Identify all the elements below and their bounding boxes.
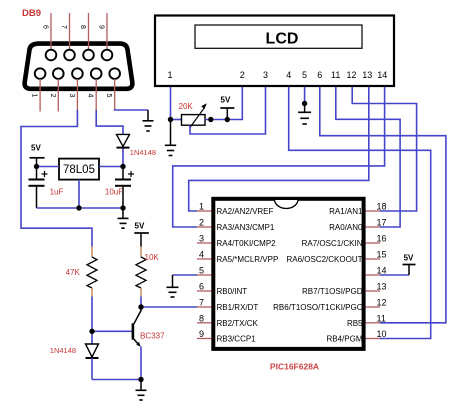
PIC pin 14 VDD (366, 266, 387, 276)
PIC pin 7 RB1 (197, 298, 258, 313)
wire base node to transistor base (92, 330, 132, 332)
wire PIC pin14 VDD to 5V (380, 274, 409, 276)
PIC pin 12 RB6 (273, 298, 386, 313)
connector DB9 label (22, 8, 41, 19)
LCD pin numbers (167, 70, 387, 80)
svg-text:13: 13 (362, 70, 372, 80)
5V supply at PIC pin14 (403, 254, 416, 276)
svg-text:RA1/AN1: RA1/AN1 (329, 207, 363, 216)
DB9 pin 2 (49, 68, 64, 111)
svg-text:10: 10 (377, 329, 387, 339)
svg-text:12: 12 (377, 298, 387, 308)
wire LCD pin5 to ground (304, 87, 306, 104)
potentiometer 20K (179, 102, 207, 128)
svg-text:10K: 10K (145, 253, 160, 262)
DB9 pin 1 (31, 68, 46, 111)
svg-text:3: 3 (263, 70, 268, 80)
wire emitter down (140, 347, 142, 380)
svg-text:RB3/CCP1: RB3/CCP1 (217, 335, 257, 344)
svg-text:RA6/OSC2/CKOOUT: RA6/OSC2/CKOOUT (286, 255, 362, 264)
svg-text:DB9: DB9 (22, 8, 41, 19)
wire LCD pin13 to PIC pin1 RA2 (189, 87, 369, 211)
svg-text:5: 5 (105, 94, 112, 98)
svg-text:8: 8 (199, 313, 204, 323)
svg-text:9: 9 (98, 25, 105, 29)
diode D2 1N4148 (50, 331, 99, 379)
DB9 pin 4 (87, 68, 102, 110)
transistor Q1 BC337 (133, 307, 165, 347)
svg-text:5V: 5V (31, 144, 41, 153)
svg-text:LCD: LCD (266, 31, 299, 48)
svg-text:11: 11 (331, 70, 340, 80)
svg-text:5: 5 (199, 266, 204, 276)
PIC pin 8 RB2 (197, 313, 259, 328)
svg-text:7: 7 (199, 298, 204, 308)
PIC pin 17 RA0 (329, 218, 386, 233)
svg-text:2: 2 (240, 70, 245, 80)
svg-text:3: 3 (199, 234, 204, 244)
wire DB9 pin5 to ground (115, 109, 148, 110)
svg-text:13: 13 (377, 282, 387, 292)
svg-text:5V: 5V (221, 96, 231, 105)
PIC pin 10 RB4 (326, 329, 386, 344)
svg-text:15: 15 (377, 250, 387, 260)
svg-text:78L05: 78L05 (63, 164, 95, 176)
svg-text:RB4/PGM: RB4/PGM (326, 335, 362, 344)
svg-text:1N4148: 1N4148 (130, 148, 156, 157)
svg-text:1uF: 1uF (50, 188, 64, 197)
svg-text:47K: 47K (66, 268, 81, 277)
svg-text:5V: 5V (135, 222, 145, 231)
capacitor C2 10uF (105, 167, 134, 209)
svg-text:9: 9 (199, 329, 204, 339)
svg-text:4: 4 (87, 94, 94, 98)
ground at 10uF (118, 208, 129, 228)
wire DB9 pin4 to diode D1 anode (96, 110, 123, 135)
wire LCD pin12 to PIC pin18 RA1 (352, 87, 416, 211)
wire LCD pin11 to PIC pin17 RA0 (336, 87, 400, 227)
junction node at 10uF ground (120, 205, 125, 210)
PIC pin 13 RB7 (302, 282, 386, 297)
5V supply at 10K (134, 222, 149, 247)
junction node at transistor collector (138, 304, 143, 309)
junction node at pot right (208, 117, 213, 122)
PIC pin 9 RB3 (197, 329, 256, 344)
junction node at transistor emitter (138, 377, 143, 382)
svg-text:12: 12 (346, 70, 356, 80)
svg-text:11: 11 (377, 313, 386, 323)
svg-text:RA3/AN3/CMP1: RA3/AN3/CMP1 (217, 223, 275, 232)
svg-text:7: 7 (60, 25, 67, 29)
regulator 78L05 (59, 159, 99, 180)
svg-text:RA2/AN2/VREF: RA2/AN2/VREF (217, 207, 274, 216)
5V supply at 78L05 input (30, 144, 45, 167)
DB9 pin 8 (79, 13, 94, 60)
connector DB9 body (25, 44, 133, 89)
svg-text:2: 2 (199, 218, 204, 228)
DB9 pin 3 (68, 68, 83, 110)
svg-text:RB2/TX/CK: RB2/TX/CK (217, 319, 259, 328)
wire diode cathode to emitter node (92, 379, 141, 381)
diode D1 1N4148 (117, 134, 157, 166)
ground at emitter (136, 380, 147, 401)
junction node at 5V pot tap (225, 117, 230, 122)
svg-text:20K: 20K (179, 102, 194, 111)
svg-text:RB0/INT: RB0/INT (217, 287, 248, 296)
svg-text:10uF: 10uF (105, 188, 123, 197)
svg-text:14: 14 (377, 266, 387, 276)
PIC pin 18 RA1 (329, 202, 386, 217)
wire pot right to LCD pin2 (205, 87, 242, 120)
wire LCD pin1 down to pot node (170, 87, 172, 120)
PIC pin 16 RA7 (302, 234, 387, 249)
svg-text:RB7/T1OSI/PGD: RB7/T1OSI/PGD (302, 287, 363, 296)
svg-text:5: 5 (302, 70, 307, 80)
DB9 pin 9 (98, 13, 113, 60)
capacitor C1 1uF (29, 167, 64, 209)
IC U1 PIC16F628A body (213, 199, 363, 372)
junction node at 78L05 output (120, 164, 125, 169)
wire 78L05 output to diode node (99, 166, 123, 168)
5V supply at pot (220, 96, 234, 120)
PIC pin 4 RA5 (197, 250, 278, 265)
svg-text:6: 6 (199, 282, 204, 292)
svg-text:6: 6 (42, 25, 49, 29)
wire DB9 pin3 to 47K top (left rail) (21, 110, 92, 247)
svg-text:14: 14 (377, 70, 387, 80)
wire pot left (171, 119, 182, 121)
wire pot wiper to LCD pin3 (190, 87, 266, 134)
wire LCD pin4 to PIC pin10 RB4 (289, 87, 431, 339)
svg-text:1N4148: 1N4148 (50, 346, 76, 355)
junction node at 78L05 ground (76, 205, 81, 210)
resistor 10K (136, 247, 159, 297)
svg-text:RB5: RB5 (347, 319, 363, 328)
svg-text:2: 2 (49, 94, 56, 98)
svg-text:RA7/OSC1/CKIN: RA7/OSC1/CKIN (302, 239, 363, 248)
DB9 pin 5 (105, 68, 120, 109)
svg-text:18: 18 (377, 202, 387, 212)
PIC pin 3 RA4 (197, 234, 276, 249)
svg-text:17: 17 (377, 218, 387, 228)
svg-text:PIC16F628A: PIC16F628A (270, 362, 319, 372)
svg-text:1: 1 (199, 202, 204, 212)
svg-text:1: 1 (31, 94, 38, 98)
wire 10K bottom to collector node (140, 297, 142, 308)
wire PIC pin5 VSS to ground (173, 274, 198, 276)
svg-text:RA4/T0KI/CMP2: RA4/T0KI/CMP2 (217, 239, 277, 248)
wire LCD pin6 to PIC pin11 RB5 (320, 87, 446, 323)
svg-text:5V: 5V (404, 254, 414, 263)
wire LCD pin14 to PIC pin2 RA3 (173, 87, 385, 227)
svg-text:3: 3 (68, 94, 75, 98)
junction node at pot left (168, 117, 173, 122)
ground below pot left node (165, 120, 176, 156)
ground at PIC pin5 (167, 275, 179, 297)
DB9 pin 7 (60, 13, 75, 60)
svg-text:1: 1 (167, 70, 172, 80)
DB9 pin 6 (42, 13, 57, 60)
svg-text:RB6/T1OSO/T1CKI/PGC: RB6/T1OSO/T1CKI/PGC (273, 303, 363, 312)
PIC pin 6 RB0 (197, 282, 247, 297)
wire 5V node to 78L05 input (37, 166, 60, 168)
junction node at 5V/78L05 input (34, 164, 39, 169)
wire 47K bottom to base node (91, 297, 93, 332)
svg-text:RA0/AN0: RA0/AN0 (329, 223, 363, 232)
svg-text:8: 8 (79, 25, 86, 29)
svg-text:6: 6 (317, 70, 322, 80)
svg-text:4: 4 (199, 250, 204, 260)
ground at LCD pin5 (298, 104, 311, 125)
resistor 47K (66, 247, 97, 297)
PIC pin 15 RA6 (286, 250, 386, 265)
svg-text:16: 16 (377, 234, 387, 244)
ground at DB9 pin5 (143, 110, 154, 131)
PIC pin 5 VSS (197, 266, 212, 276)
svg-text:4: 4 (286, 70, 291, 80)
PIC pin 2 RA3 (197, 218, 275, 233)
LCD module body (155, 16, 394, 87)
junction node at transistor base (89, 329, 94, 334)
wire ground rail under 78L05 (37, 180, 124, 208)
svg-text:RA5/*MCLR/VPP: RA5/*MCLR/VPP (217, 255, 279, 264)
svg-text:RB1/RX/DT: RB1/RX/DT (217, 303, 259, 312)
PIC pin 11 RB5 (347, 313, 386, 328)
PIC pin 1 RA2 (197, 202, 274, 217)
junction node at LCD pin5 ground (302, 101, 307, 106)
svg-text:BC337: BC337 (140, 332, 165, 341)
wire collector node to PIC pin7 RB1 (141, 306, 197, 308)
